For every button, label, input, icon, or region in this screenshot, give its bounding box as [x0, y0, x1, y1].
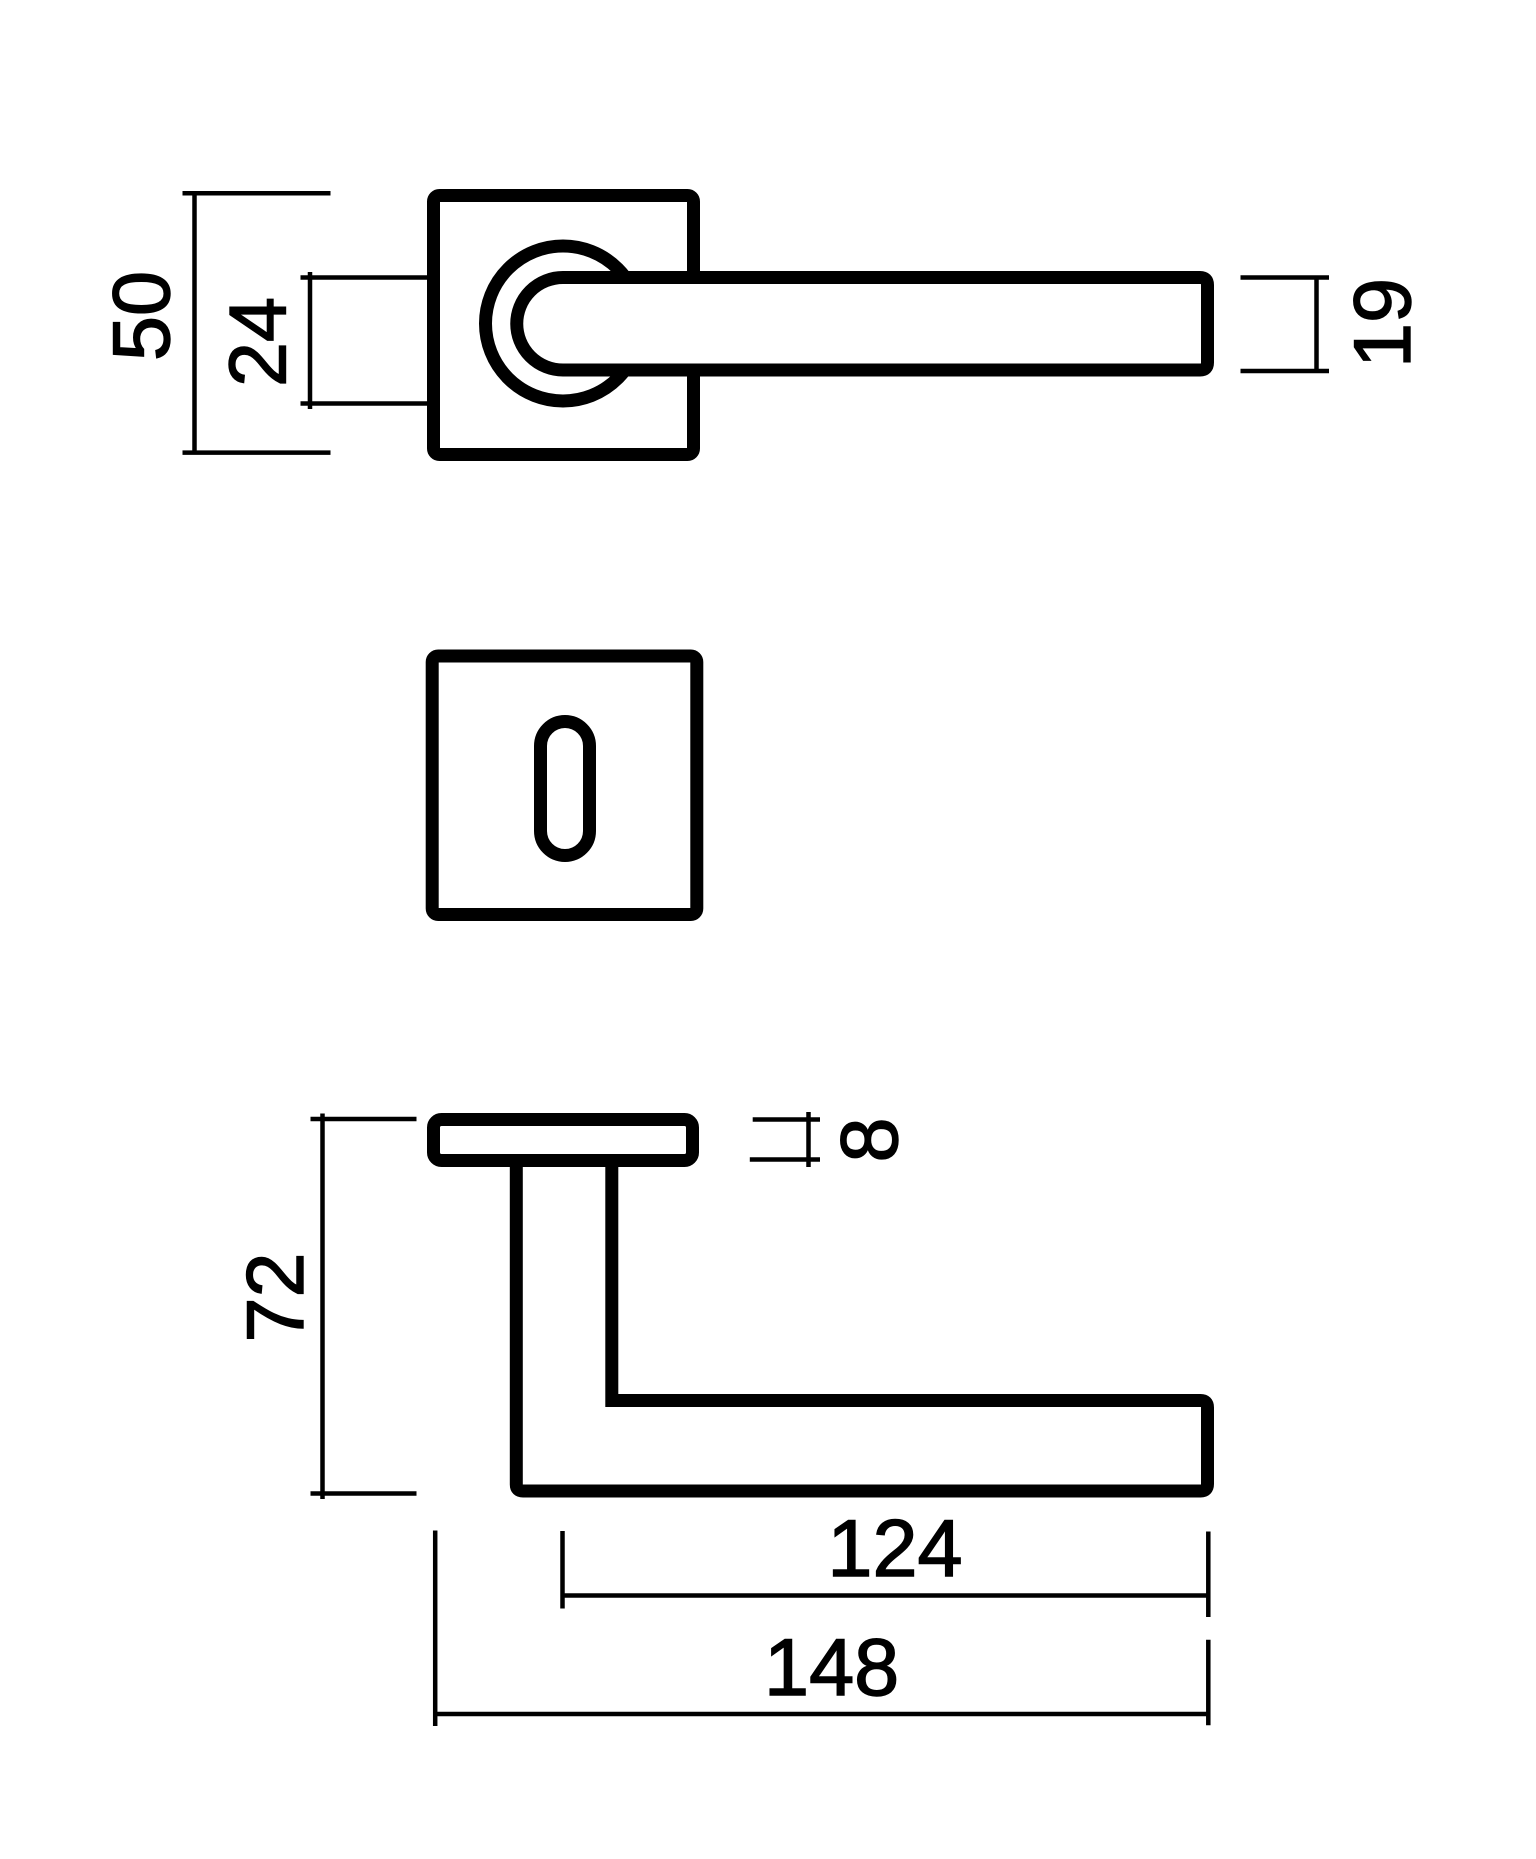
- dim 19: extension line bottom: [1241, 369, 1330, 374]
- svg-text:72: 72: [231, 1252, 321, 1342]
- dim 72: extension line top: [311, 1117, 417, 1122]
- dim 148: extension line left: [433, 1531, 438, 1727]
- lever handle (neck + grip bar): [517, 278, 1208, 371]
- dim 24: extension line bottom: [301, 401, 428, 406]
- dim 8: extension line top: [753, 1117, 820, 1122]
- lever L-profile: [516, 1160, 1207, 1491]
- dim 124: extension line right: [1206, 1532, 1211, 1618]
- dim 24: extension line top: [301, 275, 428, 280]
- dim 50: extension line bottom: [183, 450, 331, 455]
- dim 148: extension line right: [1206, 1640, 1211, 1726]
- rose square (front view): [434, 196, 694, 455]
- dim 50: extension line top: [183, 191, 331, 196]
- svg-text:124: 124: [827, 1504, 962, 1594]
- dim 8: dimension line: [806, 1112, 811, 1167]
- dim 124: extension line left: [560, 1531, 565, 1609]
- svg-text:19: 19: [1338, 278, 1428, 368]
- keyhole slot: [541, 722, 590, 856]
- dim 19: dimension line: [1314, 278, 1319, 372]
- svg-text:148: 148: [764, 1623, 899, 1713]
- dim 72: dimension line: [320, 1114, 325, 1500]
- svg-text:24: 24: [214, 297, 304, 387]
- rose plate (side): [434, 1120, 693, 1161]
- key rose square: [432, 656, 697, 915]
- bearing ring: [486, 246, 641, 401]
- dim 50: dimension line: [192, 193, 197, 452]
- dim 148: dimension line: [435, 1712, 1208, 1717]
- dim 8: extension line bottom: [750, 1157, 820, 1162]
- dim 19: extension line top: [1241, 275, 1330, 280]
- svg-text:50: 50: [97, 271, 187, 361]
- svg-text:8: 8: [825, 1117, 915, 1162]
- dim 124: dimension line: [563, 1593, 1209, 1598]
- dim 24: dimension line: [308, 272, 313, 409]
- dim 72: extension line bottom: [311, 1491, 417, 1496]
